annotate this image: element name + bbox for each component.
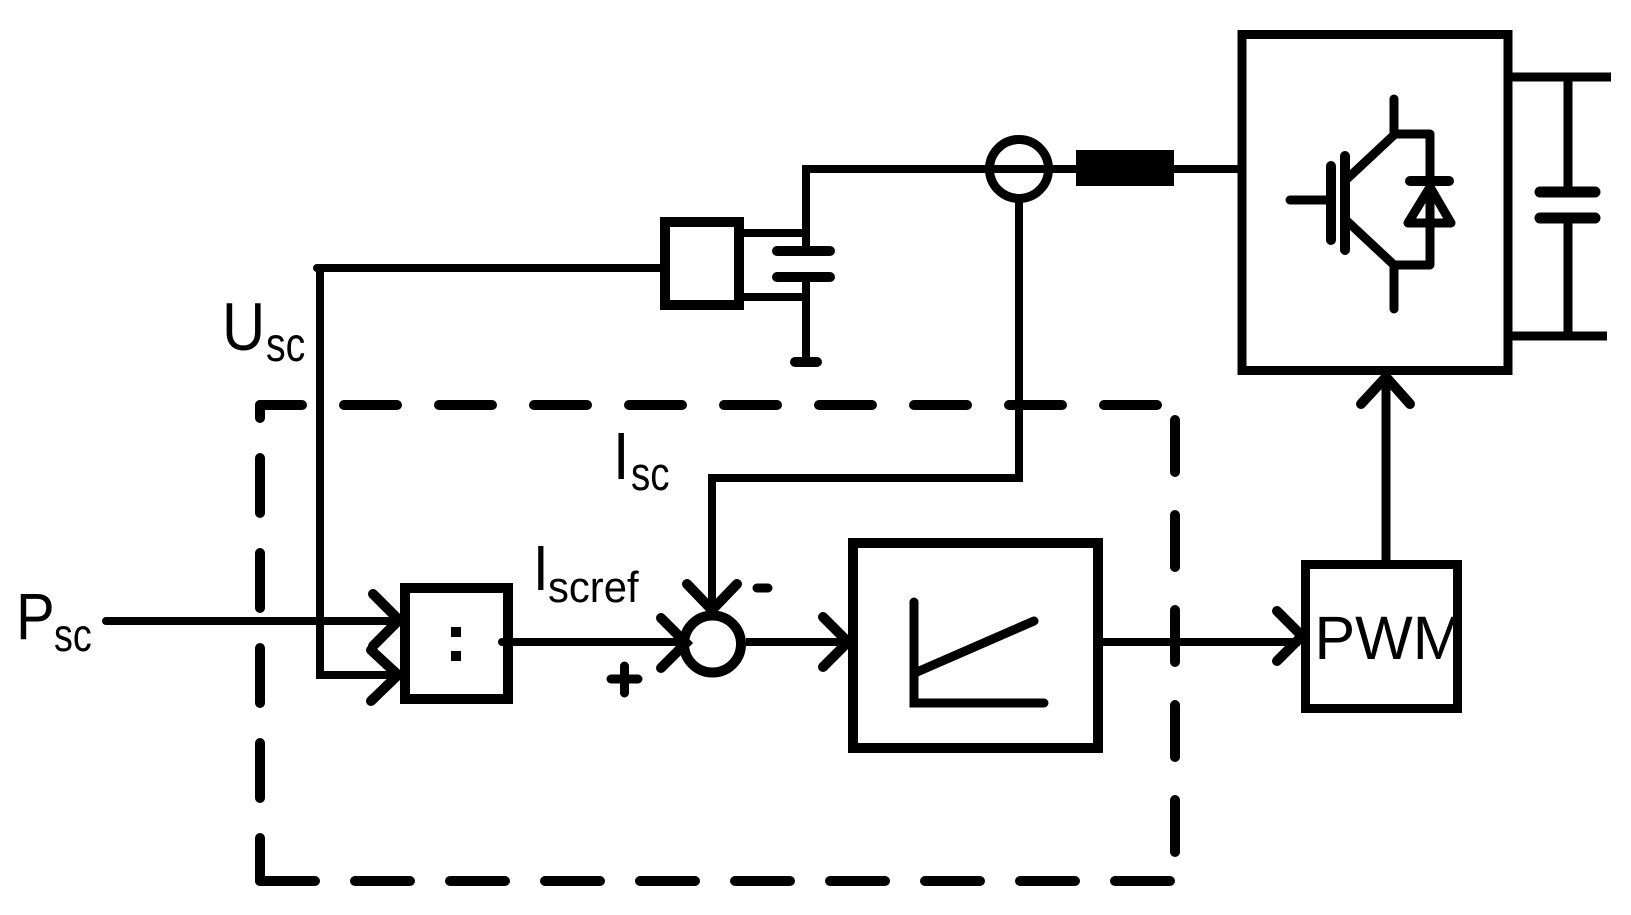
wire sensor down: [1015, 199, 1023, 482]
wire Psc input: [106, 617, 397, 625]
wire Iscref: [505, 638, 684, 646]
capacitor C1 bottom plate: [777, 272, 830, 282]
divider block: [405, 588, 508, 699]
label minus: [757, 584, 768, 593]
wire Isc down to summer: [708, 474, 716, 612]
node dot at divider output: [498, 638, 506, 646]
transistor Q1 collector lead: [1394, 99, 1430, 134]
ground bar: [795, 357, 817, 367]
transistor Q1 emitter lead: [1394, 265, 1430, 309]
capacitor C2 top lead: [1564, 77, 1573, 192]
wire module bottom right: [739, 293, 806, 301]
transistor Q1 gate bar: [1326, 166, 1336, 240]
arrowhead into summer top: [687, 584, 737, 610]
transistor Q1 (IGBT) gate lead: [1290, 196, 1326, 205]
label Iscref: [533, 532, 549, 604]
supercap module box: [665, 222, 739, 305]
svg-text:I: I: [533, 532, 549, 604]
label PWM: [1314, 604, 1463, 672]
wire Usc into divider: [320, 671, 396, 679]
svg-text:P: P: [16, 581, 55, 654]
arrowhead into PWM: [1277, 611, 1302, 661]
svg-text:sc: sc: [54, 609, 92, 660]
diode D1 vertical lead: [1426, 134, 1435, 265]
divider colon dot bottom: [451, 651, 461, 661]
svg-text:U: U: [222, 288, 265, 364]
summing junction: [684, 616, 741, 673]
current sensor circle: [990, 140, 1049, 199]
inductor L1 (choke): [1076, 150, 1174, 186]
wire dc bottom: [1508, 332, 1607, 341]
label Usc: [222, 288, 265, 364]
wire Usc vertical: [316, 268, 324, 679]
wire summer to controller: [746, 638, 846, 646]
diode D1 cathode bar: [1410, 176, 1449, 186]
dashed control box right: [1170, 405, 1180, 881]
label plus: [611, 666, 638, 693]
svg-text:PWM: PWM: [1314, 604, 1463, 672]
svg-text:sc: sc: [266, 318, 305, 372]
wire dc top: [1508, 73, 1611, 82]
wire module top right: [739, 229, 806, 237]
label Isc: [613, 420, 629, 494]
svg-text:I: I: [613, 420, 629, 494]
arrowhead into controller: [823, 617, 848, 667]
label Psc: [16, 581, 55, 654]
svg-text:scref: scref: [548, 563, 639, 612]
dashed control box left: [255, 405, 265, 881]
wire Isc horizontal: [712, 474, 1019, 482]
transistor Q1 emitter diagonal: [1348, 222, 1394, 265]
wire main top: [806, 165, 1242, 173]
svg-text:sc: sc: [631, 448, 670, 500]
dashed control box top: [260, 400, 1175, 410]
PWM block: [1306, 565, 1458, 709]
arrowhead Psc into divider: [373, 594, 399, 646]
controller ramp line: [917, 621, 1034, 672]
capacitor C1 top lead: [802, 165, 810, 251]
arrowhead into summer left: [661, 618, 686, 668]
transistor Q1 body bar: [1340, 156, 1350, 250]
converter box U1: [1242, 35, 1508, 371]
arrowhead Usc into divider: [371, 650, 398, 701]
wire controller to PWM: [1103, 638, 1300, 646]
controller axes: [914, 602, 1044, 703]
dashed control box bottom: [260, 876, 1175, 886]
capacitor C2 bottom lead: [1564, 218, 1573, 336]
capacitor C1 bottom lead: [802, 277, 810, 362]
capacitor C2 bottom plate: [1540, 213, 1595, 224]
controller block (rate limiter): [853, 543, 1098, 748]
wire module to Usc: [317, 264, 665, 272]
capacitor C1 top plate: [777, 246, 830, 256]
transistor Q1 collector diagonal: [1348, 135, 1394, 178]
capacitor C2 top plate: [1540, 187, 1595, 198]
diode D1 triangle: [1408, 187, 1451, 223]
wire PWM to converter: [1382, 372, 1391, 560]
arrowhead into converter: [1361, 377, 1410, 404]
divider colon dot top: [451, 627, 461, 637]
